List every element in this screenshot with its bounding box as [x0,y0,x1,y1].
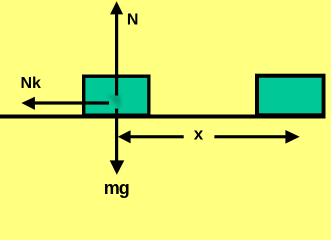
normal force arrow N (head) [110,1,123,14]
displacement arrow x (right segment) [214,135,286,138]
svg-text:x: x [194,125,204,144]
svg-text:N: N [127,12,139,29]
svg-text:Nk: Nk [21,75,42,92]
smudge inside block 1 [108,95,122,110]
displacement arrow x (right head) [285,130,299,144]
surface line [0,115,326,119]
normal force arrow N (shaft) [115,14,118,96]
svg-text:mg: mg [104,178,129,198]
displacement arrow x (left segment) [130,135,184,138]
weight arrow mg (shaft) [115,109,118,162]
displacement arrow x (left head) [118,130,131,143]
block 2 (right) [255,74,326,118]
friction arrow Nk (shaft) [33,101,109,104]
friction arrow Nk (head) [21,97,35,110]
block 1 (left, on pivot) [82,75,151,118]
weight arrow mg (head) [110,160,125,174]
